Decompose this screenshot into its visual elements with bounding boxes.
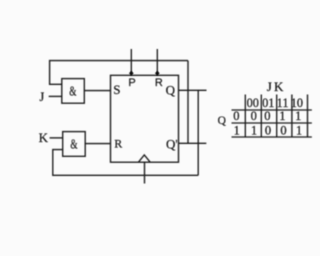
wire U1 output to S: [84, 90, 110, 92]
wire vertical Q feedback dropper: [197, 90, 199, 175]
svg-text:S: S: [113, 82, 120, 97]
arrowhead preset R: [155, 71, 160, 76]
table row 1 digits: [233, 109, 301, 123]
and-gate U1 (J input): [62, 79, 85, 104]
svg-text:Q': Q': [166, 137, 178, 152]
arrowhead preset P: [129, 71, 134, 76]
table header digits: [247, 96, 303, 110]
svg-text:1: 1: [251, 123, 257, 137]
svg-text:01: 01: [262, 96, 274, 110]
wire K input: [50, 137, 63, 139]
svg-text:R: R: [155, 77, 163, 89]
svg-text:J K: J K: [267, 79, 284, 94]
svg-text:0: 0: [251, 109, 257, 123]
svg-text:K: K: [39, 130, 49, 145]
table row 2 digits: [234, 123, 302, 137]
svg-text:P: P: [128, 77, 135, 89]
svg-text:1: 1: [296, 123, 302, 137]
svg-text:&: &: [69, 83, 77, 98]
svg-text:1: 1: [279, 109, 285, 123]
wire clock stub: [144, 162, 146, 183]
svg-text:10: 10: [291, 96, 303, 110]
svg-text:Q: Q: [166, 83, 176, 98]
svg-text:&: &: [70, 137, 78, 152]
preset P line: [130, 49, 132, 75]
svg-text:11: 11: [277, 96, 289, 110]
wire bottom feedback run: [53, 150, 198, 176]
svg-text:0: 0: [264, 109, 270, 123]
wire Q' output stub: [179, 142, 207, 144]
svg-text:0: 0: [265, 123, 271, 137]
flip-flop U3 box: [111, 75, 179, 162]
wire vertical Q' feedback riser: [187, 61, 189, 144]
preset R line: [156, 49, 158, 75]
svg-text:R: R: [114, 137, 122, 151]
svg-text:1: 1: [234, 123, 240, 137]
karnaugh map table lines: [232, 95, 312, 138]
clock triangle: [138, 155, 150, 162]
svg-text:00: 00: [247, 96, 259, 110]
svg-text:0: 0: [233, 109, 239, 123]
svg-text:0: 0: [280, 123, 286, 137]
svg-text:J: J: [39, 90, 44, 104]
wire J input: [49, 95, 62, 97]
wire U2 output to R: [85, 143, 110, 145]
svg-text:1: 1: [295, 109, 301, 123]
svg-text:Q: Q: [218, 115, 227, 127]
wire top feedback from Q' vertical to J gate: [50, 61, 188, 85]
wire Q output stub: [179, 89, 207, 91]
and-gate U2 (K input): [63, 132, 85, 157]
